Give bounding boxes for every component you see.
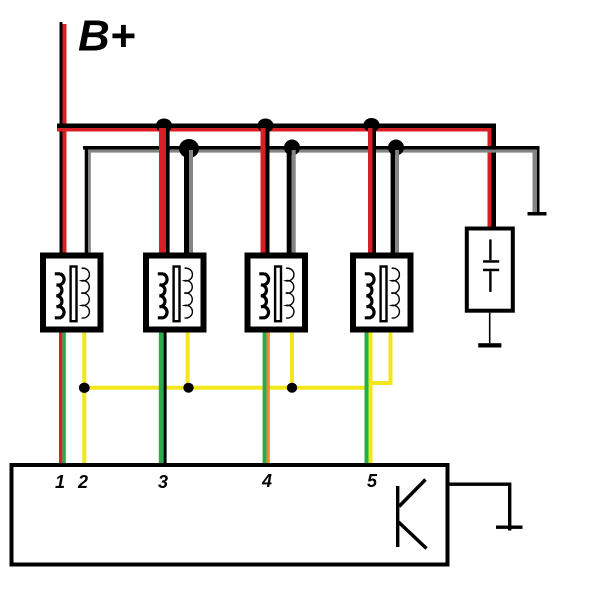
ECU ground bar: [496, 526, 523, 529]
node dot bus coil4: [364, 118, 380, 132]
wire +12V bus horizontal (black): [57, 124, 496, 129]
svg-text:B+: B+: [78, 12, 135, 61]
wire +12V bus horizontal (red): [57, 128, 492, 132]
wire gray feed coil2: [184, 150, 189, 256]
ground symbol top right: [528, 212, 547, 216]
node dot gray bus coil3: [284, 140, 300, 156]
wire coil2 to ECU pin3 green: [159, 333, 164, 464]
ignition coil T3 box: [248, 256, 306, 330]
node dot yellow bus 3: [287, 383, 297, 393]
wire coil3 to ECU pin4 orange: [267, 333, 270, 464]
capacitor ground lead: [489, 313, 491, 344]
transistor emitter diagonal: [399, 522, 427, 549]
svg-text:1: 1: [55, 472, 65, 492]
wire coil1 to ECU pin1 red: [59, 333, 62, 464]
wire coil1 to ECU pin1 green: [62, 333, 65, 464]
T4 secondary winding: [391, 268, 399, 318]
ignition coil T1 box: [43, 256, 101, 330]
capacitor symbol top lead: [489, 239, 491, 260]
wire ground bus horizontal (gray): [85, 150, 537, 153]
transistor symbol base bar: [396, 486, 399, 547]
wire red feed coil2: [159, 128, 166, 256]
wire gray feed coil3: [287, 150, 292, 256]
ignition coil T4 box: [353, 256, 411, 330]
wire red feed coil4: [368, 128, 373, 256]
T2 primary winding: [158, 274, 167, 318]
node dot gray bus coil2: [179, 139, 199, 158]
svg-text:4: 4: [261, 471, 272, 491]
svg-text:3: 3: [158, 472, 168, 492]
T2 secondary winding: [184, 268, 192, 318]
T3 primary winding: [259, 274, 268, 318]
wire +12V bus right drop (black): [492, 124, 497, 228]
wire +12V bus right drop (red): [488, 128, 492, 228]
wire B+ feed vertical (red): [63, 24, 67, 256]
T4 core: [381, 267, 387, 322]
node dot yellow bus 1: [79, 383, 90, 393]
svg-text:5: 5: [367, 471, 378, 491]
capacitor/suppressor box: [467, 229, 513, 311]
capacitor symbol top plate: [483, 260, 499, 263]
ignition coil T2 box: [146, 256, 204, 330]
capacitor ground bar: [478, 343, 501, 347]
svg-text:2: 2: [77, 472, 88, 492]
wire red feed coil3: [261, 128, 266, 256]
node dot yellow bus 2: [183, 383, 193, 393]
T3 core: [275, 267, 281, 322]
wire B+ feed vertical (black): [60, 22, 63, 256]
wire ground bus right drop black edge: [537, 146, 540, 212]
T1 primary winding: [55, 274, 64, 318]
wire ECU ground drop: [508, 483, 511, 531]
node dot bus coil2: [156, 119, 172, 133]
T1 secondary winding: [81, 268, 89, 318]
wire coil1 yellow drop to ECU: [82, 333, 86, 464]
capacitor symbol bottom lead: [489, 271, 491, 292]
yellow bus jog to coil4: [366, 381, 393, 385]
wire ground bus left drop gray: [88, 150, 91, 253]
wire coil4 to ECU pin5 green: [365, 333, 369, 464]
wire ground bus horizontal (black edge): [83, 146, 539, 150]
wire ground bus left drop black: [85, 146, 88, 253]
wire coil2 to ECU pin3 black: [164, 333, 167, 464]
wire coil4 to ECU pin5 yellow: [369, 333, 373, 464]
wire coil3 to ECU pin4 green: [263, 333, 267, 464]
T1 core: [71, 267, 77, 322]
ECU box: [12, 465, 448, 565]
yellow bus horizontal: [84, 386, 372, 390]
wire ECU to ground horizontal: [450, 483, 512, 486]
wire gray feed coil4: [391, 150, 396, 256]
T2 core: [174, 267, 180, 322]
wire ground bus right drop gray: [533, 150, 538, 212]
T4 primary winding: [365, 274, 374, 318]
wire coil2 yellow drop: [186, 333, 190, 390]
wire coil4 yellow drop: [389, 333, 393, 386]
T3 secondary winding: [286, 268, 294, 318]
capacitor symbol bottom plate: [483, 269, 499, 272]
node dot gray bus coil4: [388, 140, 404, 156]
node dot bus coil3: [258, 119, 274, 133]
wire coil3 yellow drop: [290, 333, 294, 390]
transistor collector diagonal: [399, 480, 426, 507]
